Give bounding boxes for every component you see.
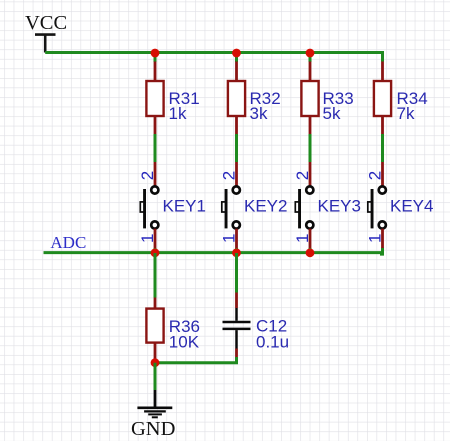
wire to ADC rail c3 bbox=[309, 248, 312, 253]
svg-text:10K: 10K bbox=[169, 332, 200, 351]
svg-text:KEY3: KEY3 bbox=[318, 197, 361, 216]
pin wire into KEY2 pin2 bbox=[235, 162, 238, 186]
switch KEY2 bbox=[222, 186, 240, 228]
svg-text:1k: 1k bbox=[169, 104, 187, 123]
svg-text:VCC: VCC bbox=[25, 12, 67, 34]
junction dot bottom bbox=[151, 358, 160, 367]
resistor R33 pin top bbox=[309, 62, 312, 81]
svg-text:KEY2: KEY2 bbox=[244, 197, 287, 216]
junction dot ADC rail c3 bbox=[306, 248, 315, 257]
svg-text:2: 2 bbox=[293, 171, 312, 180]
capacitor C12 pin bottom bbox=[235, 349, 238, 358]
resistor R31 pin bottom bbox=[154, 117, 157, 134]
power port VCC bar symbol bbox=[35, 35, 56, 53]
wire ADC rail down to C12 bbox=[235, 253, 238, 293]
wire C12 bottom corner to junction bbox=[155, 357, 237, 363]
switch KEY3 bbox=[295, 186, 313, 228]
svg-text:5k: 5k bbox=[323, 104, 341, 123]
wire top rail bbox=[45, 51, 382, 54]
resistor R34 bbox=[374, 81, 391, 116]
pin wire from KEY2 pin1 bbox=[235, 229, 238, 248]
junction dot ADC rail c2 bbox=[232, 248, 241, 257]
resistor R36 bbox=[146, 309, 163, 343]
junction dot top rail c1 bbox=[151, 49, 160, 58]
wire to ADC rail c2 bbox=[235, 248, 238, 253]
resistor R36 pin bottom bbox=[154, 344, 157, 360]
resistor R33 pin bottom bbox=[309, 117, 312, 134]
resistor R36 pin top bbox=[154, 298, 157, 308]
svg-text:0.1u: 0.1u bbox=[256, 332, 289, 351]
resistor R31 pin top bbox=[154, 62, 157, 81]
resistor R31 bbox=[146, 81, 163, 116]
svg-text:2: 2 bbox=[366, 171, 385, 180]
wire KEY4 rise to ADC rail bbox=[380, 248, 383, 255]
ground lead bbox=[154, 390, 157, 408]
svg-text:ADC: ADC bbox=[50, 233, 86, 252]
svg-text:KEY4: KEY4 bbox=[390, 197, 433, 216]
wire ADC rail bbox=[44, 251, 383, 254]
svg-text:GND: GND bbox=[131, 418, 175, 440]
wire between R32 and KEY2 bbox=[235, 134, 238, 162]
resistor R32 pin top bbox=[235, 62, 238, 81]
pin wire into KEY1 pin2 bbox=[154, 162, 157, 186]
wire KEY4 drop from top rail bbox=[381, 51, 384, 62]
pin wire from KEY1 pin1 bbox=[154, 229, 157, 248]
svg-text:2: 2 bbox=[138, 171, 157, 180]
junction dot ADC rail c1 bbox=[151, 248, 160, 257]
pin wire into KEY4 pin2 bbox=[381, 162, 384, 186]
resistor R32 bbox=[228, 81, 245, 116]
svg-text:2: 2 bbox=[220, 171, 239, 180]
wire ADC rail down to R36 bbox=[154, 253, 157, 298]
switch KEY1 bbox=[140, 186, 158, 228]
svg-text:3k: 3k bbox=[250, 104, 268, 123]
pin wire from KEY3 pin1 bbox=[309, 229, 312, 248]
svg-text:7k: 7k bbox=[397, 104, 415, 123]
wire to ADC rail c1 bbox=[154, 248, 157, 253]
wire between R33 and KEY3 bbox=[309, 134, 312, 162]
junction dot top rail c3 bbox=[306, 49, 315, 58]
wire stub below top dot c3 bbox=[309, 53, 312, 63]
junction dot top rail c2 bbox=[232, 49, 241, 58]
capacitor C12 pin top bbox=[235, 293, 238, 309]
pin wire from KEY4 pin1 bbox=[381, 229, 384, 248]
ground symbol bbox=[137, 408, 172, 418]
wire stub below top dot c1 bbox=[154, 53, 157, 63]
wire between R34 and KEY4 bbox=[381, 134, 384, 162]
wire junction down to ground bbox=[154, 363, 157, 390]
wire stub below top dot c2 bbox=[235, 53, 238, 63]
resistor R34 pin top bbox=[381, 62, 384, 81]
resistor R34 pin bottom bbox=[381, 117, 384, 134]
resistor R33 bbox=[301, 81, 318, 116]
wire between R31 and KEY1 bbox=[154, 134, 157, 162]
resistor R32 pin bottom bbox=[235, 117, 238, 134]
switch KEY4 bbox=[368, 186, 386, 228]
svg-text:KEY1: KEY1 bbox=[163, 197, 206, 216]
pin wire into KEY3 pin2 bbox=[309, 162, 312, 186]
capacitor C12 bbox=[223, 308, 251, 349]
